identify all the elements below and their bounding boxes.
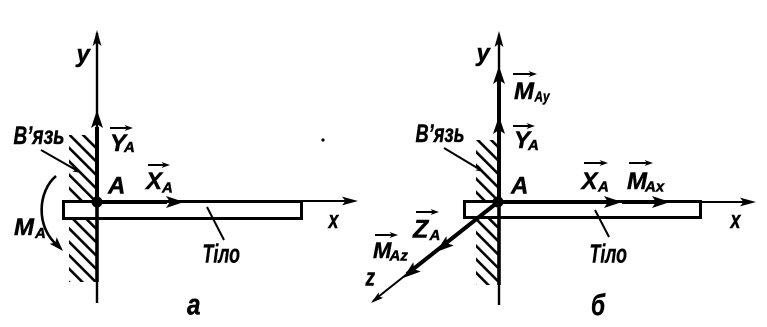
pointer line from В’язь to wall [41, 150, 76, 170]
beam body rectangle (Тіло) [64, 202, 302, 219]
x axis (left figure) [302, 200, 346, 202]
moment M_Az arrowhead [399, 262, 421, 283]
stray ink speck [321, 138, 324, 141]
svg-text:A: A [161, 180, 173, 197]
reaction Y_A thick arrow [95, 127, 99, 202]
svg-text:Az: Az [389, 248, 409, 265]
svg-text:A: A [123, 139, 135, 156]
reaction X_A thick arrow [97, 200, 167, 204]
svg-text:y: y [476, 40, 492, 67]
moment M_A curved arrow [42, 176, 58, 246]
svg-text:A: A [34, 225, 46, 242]
hatched wall band (right figure, below beam) [476, 218, 498, 285]
svg-text:В’язь: В’язь [14, 122, 65, 150]
wall edge thick line [95, 135, 99, 282]
svg-text:M: M [14, 214, 35, 241]
wall edge thick line (right) [497, 140, 501, 285]
y axis (left figure) [96, 33, 98, 303]
pointer line from Тіло to beam (right) [595, 210, 609, 237]
reaction X_A thick arrow (right) [498, 200, 608, 204]
z axis thick shaft with reaction Z_A and moment M_Az [407, 202, 498, 274]
y axis arrowhead [93, 30, 102, 46]
svg-text:x: x [729, 207, 742, 234]
z axis thin tail [373, 274, 407, 301]
x axis arrowhead (right) [740, 198, 756, 207]
moment M_Ax thick arrow [622, 200, 656, 204]
x axis arrowhead [342, 197, 358, 206]
z axis arrowhead [369, 292, 383, 305]
svg-text:Ay: Ay [534, 89, 550, 106]
svg-text:A: A [527, 137, 539, 154]
beam body rectangle (right, Тіло) [465, 202, 701, 218]
svg-text:Ax: Ax [644, 179, 665, 196]
svg-text:A: A [107, 173, 125, 200]
hatched wall band (left figure, above beam) [69, 135, 96, 201]
svg-text:В’язь: В’язь [416, 120, 465, 148]
svg-text:а: а [187, 289, 201, 322]
svg-text:Z: Z [412, 216, 430, 244]
svg-text:Тіло: Тіло [590, 239, 628, 269]
svg-text:x: x [327, 207, 340, 234]
hatched wall band (right figure, above beam) [476, 140, 498, 201]
y axis (right figure) [498, 35, 500, 305]
svg-text:X: X [144, 168, 164, 195]
svg-text:y: y [76, 41, 92, 68]
y axis arrowhead (right) [495, 31, 504, 47]
reaction Y_A arrowhead [493, 116, 505, 134]
hatched wall band (left figure, below beam) [69, 219, 96, 282]
svg-text:Тіло: Тіло [203, 239, 241, 269]
x axis (right figure) [701, 201, 744, 203]
svg-text:A: A [510, 173, 528, 200]
node A dot (right) [493, 197, 504, 208]
reactions Y_A and moment M_Ay thick shaft along y [497, 72, 501, 202]
svg-text:M: M [514, 78, 535, 105]
svg-text:б: б [591, 289, 606, 322]
svg-text:z: z [365, 265, 375, 292]
svg-text:A: A [429, 227, 441, 244]
moment M_Ay arrowhead [493, 66, 505, 84]
svg-text:X: X [580, 168, 600, 195]
pointer line from Тіло to beam [207, 207, 224, 240]
node A dot (left) [92, 197, 103, 208]
svg-text:A: A [597, 179, 609, 196]
reaction Z_A arrowhead [432, 236, 454, 257]
pointer line from В’язь to wall (right) [444, 148, 479, 169]
